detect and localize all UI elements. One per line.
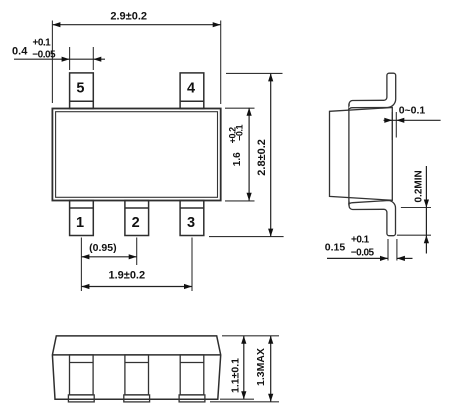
svg-text:2: 2 — [132, 215, 140, 231]
dimension 1.3MAX — [210, 336, 279, 402]
dimension 0.2MIN — [397, 166, 431, 254]
svg-text:1.1±0.1: 1.1±0.1 — [230, 358, 242, 393]
svg-text:1: 1 — [76, 215, 84, 231]
svg-text:+0.1: +0.1 — [351, 234, 370, 245]
top view body outer — [52, 109, 220, 201]
svg-text:+0.1: +0.1 — [33, 38, 52, 49]
svg-text:−0.05: −0.05 — [32, 49, 56, 60]
dimension 1.6 +0.2/-0.1 — [225, 108, 255, 201]
side view top lead (pin 4 profile) — [348, 73, 395, 109]
front view body — [52, 336, 220, 399]
svg-text:0~0.1: 0~0.1 — [399, 105, 426, 117]
pin 3 — [180, 201, 204, 236]
svg-text:0.15: 0.15 — [325, 241, 346, 253]
svg-text:4: 4 — [187, 80, 195, 96]
dimension 0.15 +0.1/-0.05 — [325, 234, 413, 261]
pin 4 — [180, 73, 204, 109]
svg-text:−0.1: −0.1 — [235, 124, 245, 141]
top view body inner — [56, 112, 218, 198]
dimension 2.9±0.2 — [52, 10, 220, 104]
side view body — [330, 104, 393, 206]
svg-text:2.9±0.2: 2.9±0.2 — [110, 10, 147, 22]
front view lead 1 — [68, 355, 94, 402]
dimension 0.4 +0.1/-0.05 — [12, 38, 105, 71]
svg-text:5: 5 — [76, 80, 84, 96]
pin 2 — [125, 201, 149, 236]
side view bottom lead (pin 3 profile) — [348, 201, 395, 236]
svg-text:−0.05: −0.05 — [351, 247, 375, 258]
dimension 0~0.1 — [384, 105, 441, 140]
svg-text:1.9±0.2: 1.9±0.2 — [108, 270, 145, 282]
svg-text:2.8±0.2: 2.8±0.2 — [256, 139, 268, 176]
svg-text:1.6: 1.6 — [232, 152, 243, 166]
svg-text:(0.95): (0.95) — [89, 242, 116, 254]
dimension (0.95) — [81, 238, 136, 292]
pin 1 — [70, 201, 94, 236]
svg-text:0.2MIN: 0.2MIN — [414, 170, 425, 202]
svg-text:3: 3 — [187, 215, 195, 231]
dimension 1.9±0.2 — [81, 238, 192, 292]
front view lead 2 — [124, 355, 150, 402]
svg-text:1.3MAX: 1.3MAX — [255, 348, 267, 386]
dimension 2.8±0.2 — [209, 73, 284, 236]
pin 5 — [70, 73, 94, 109]
svg-text:0.4: 0.4 — [12, 46, 28, 58]
dimension 1.1±0.1 — [220, 336, 279, 399]
front view lead 3 — [179, 355, 205, 402]
